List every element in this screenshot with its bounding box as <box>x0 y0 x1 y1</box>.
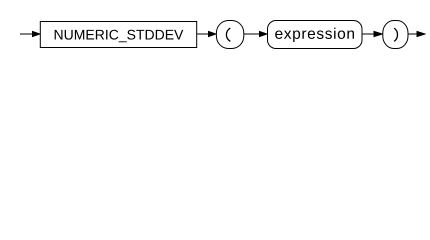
arrowhead A2 <box>208 31 217 37</box>
terminal pill ) <box>383 21 408 49</box>
arrowhead A4 <box>374 31 385 37</box>
keyword box NUMERIC_STDDEV <box>40 22 196 48</box>
wire W4 <box>362 33 374 35</box>
wire W2 <box>197 33 210 35</box>
wire W3 <box>244 33 260 35</box>
arrowhead A1 <box>32 31 41 37</box>
terminal pill ( <box>216 21 243 49</box>
label ( glyph <box>226 28 230 41</box>
wire W1 (entry line) <box>20 33 33 35</box>
label ) glyph <box>394 28 397 41</box>
background <box>0 0 430 58</box>
label expression <box>275 28 354 42</box>
arrowhead A5 <box>417 31 427 37</box>
arrowhead A3 <box>259 31 268 37</box>
label NUMERIC_STDDEV <box>55 30 184 43</box>
nonterminal pill expression <box>268 21 363 49</box>
wire W5 (exit line) <box>408 33 417 35</box>
